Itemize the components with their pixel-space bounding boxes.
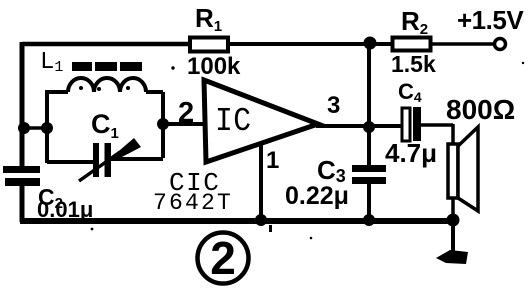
- svg-text:100k: 100k: [187, 53, 241, 80]
- node dot C3 bottom: [363, 214, 375, 226]
- node dot top rail R1-R2: [364, 37, 377, 50]
- wire R2 to +1.5V terminal: [431, 42, 495, 46]
- wire vertical branch node to C3 top: [367, 44, 371, 165]
- svg-text:0.22μ: 0.22μ: [285, 182, 349, 210]
- node dot tank left edge: [41, 122, 53, 134]
- capacitor C4 plates: [402, 108, 410, 141]
- svg-text:+1.5V: +1.5V: [457, 5, 524, 35]
- speaker driver rectangle: [448, 144, 458, 198]
- wire C4 to speaker: [421, 124, 453, 147]
- terminal +1.5V open circle: [495, 39, 506, 50]
- svg-text:3: 3: [327, 92, 340, 119]
- wire pin 2 input: [163, 122, 206, 126]
- wire left rail upper: [20, 42, 25, 167]
- junction node dots: [18, 37, 460, 227]
- node dot left rail / tank: [18, 122, 30, 134]
- variable capacitor C1 arrow: [79, 152, 120, 181]
- node dot pin 1 bottom: [255, 214, 267, 226]
- svg-text:2: 2: [178, 97, 194, 129]
- wire top rail from left corner to R1: [22, 42, 190, 47]
- svg-text:7642T: 7642T: [153, 190, 233, 216]
- figure number circled 2: [198, 233, 249, 284]
- svg-text:0.01μ: 0.01μ: [37, 197, 93, 222]
- svg-text:1.5k: 1.5k: [391, 51, 436, 77]
- svg-text:C4: C4: [398, 79, 422, 105]
- IC amplifier triangle: [204, 80, 318, 162]
- inductor L1 coil: [45, 78, 163, 163]
- wire ground stub: [451, 221, 455, 254]
- resistor R2: [393, 38, 431, 51]
- scan specks: [79, 62, 524, 240]
- node dot speaker ground: [447, 214, 460, 227]
- svg-text:800Ω: 800Ω: [446, 94, 515, 125]
- wire pin 1 to ground rail: [259, 144, 263, 220]
- speaker cone: [458, 127, 478, 211]
- svg-text:4.7μ: 4.7μ: [385, 138, 437, 168]
- wire left rail lower below C2: [20, 185, 25, 222]
- wire bottom ground rail: [20, 218, 453, 224]
- node dot tank right edge: [157, 118, 169, 130]
- svg-text:R2: R2: [401, 6, 428, 38]
- tank box bottom edge: [47, 159, 163, 162]
- node dot output pin 3: [363, 121, 375, 133]
- svg-text:C1: C1: [91, 109, 119, 142]
- capacitor C2 plates: [3, 166, 40, 173]
- variable capacitor C1 plates: [93, 143, 99, 177]
- inductor L1 ferrite core dashes: [72, 62, 142, 71]
- ground symbol: [436, 250, 468, 264]
- resistor R1: [190, 38, 228, 52]
- wire C3 bottom to ground rail: [367, 184, 371, 220]
- svg-text:IC: IC: [215, 104, 252, 141]
- svg-text:L1: L1: [40, 49, 63, 76]
- svg-text:2: 2: [210, 232, 236, 284]
- svg-text:1: 1: [266, 147, 279, 174]
- wire tank left terminal to left rail: [22, 126, 47, 130]
- svg-text:R1: R1: [195, 3, 222, 35]
- capacitor C3 plates: [352, 165, 386, 172]
- wire R1 to node junction: [228, 42, 392, 46]
- wire pin 3 output to C4: [316, 124, 402, 128]
- wire speaker bottom to rail: [451, 197, 455, 220]
